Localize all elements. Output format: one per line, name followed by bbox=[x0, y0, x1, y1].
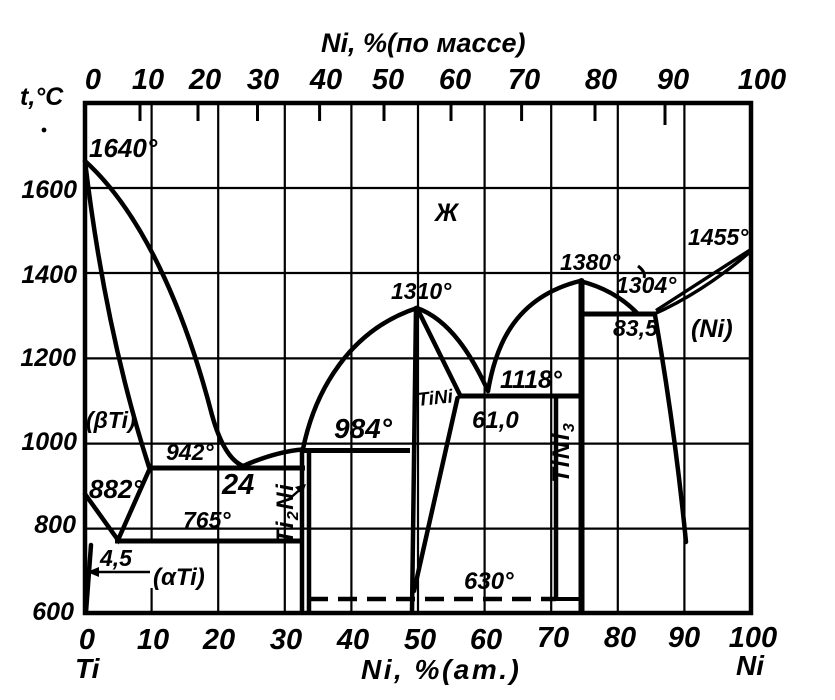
svg-text:800: 800 bbox=[34, 511, 76, 539]
svg-text:984°: 984° bbox=[334, 413, 393, 444]
svg-text:882°: 882° bbox=[89, 474, 143, 504]
top wt% tick marks bbox=[140, 105, 665, 125]
svg-text:100: 100 bbox=[738, 64, 786, 96]
svg-text:0: 0 bbox=[79, 624, 95, 656]
svg-text:40: 40 bbox=[336, 624, 369, 656]
scan speckle dot bbox=[42, 128, 47, 133]
svg-text:20: 20 bbox=[188, 64, 221, 96]
liquidus Ti side bbox=[85, 161, 243, 466]
beta-Ti solidus bbox=[85, 161, 149, 467]
svg-text:60: 60 bbox=[470, 624, 502, 656]
svg-text:1380°: 1380° bbox=[560, 249, 621, 275]
liquidus eutectic to Ti2Ni bbox=[243, 450, 302, 467]
lens liquidus to Ni bbox=[652, 252, 750, 315]
TiNi3 box bottom segment bbox=[553, 597, 583, 601]
svg-text:1310°: 1310° bbox=[391, 278, 452, 304]
thick horizontal invariant lines bbox=[115, 314, 656, 541]
svg-text:24: 24 bbox=[221, 469, 254, 501]
plot frame bbox=[85, 103, 751, 613]
svg-text:80: 80 bbox=[585, 64, 617, 96]
alpha-Ti solvus bbox=[86, 545, 91, 612]
svg-text:1118°: 1118° bbox=[500, 366, 563, 394]
comma mark near 1304 bbox=[638, 266, 644, 278]
942 eutectic line bbox=[148, 466, 305, 471]
svg-text:80: 80 bbox=[604, 622, 636, 654]
liquidus 1118 eutectic to TiNi3 dome bbox=[488, 281, 580, 391]
svg-text:83,5: 83,5 bbox=[613, 315, 659, 341]
svg-text:20: 20 bbox=[202, 624, 235, 656]
882 eutectoid V bbox=[85, 468, 150, 540]
TiNi3 left boundary bbox=[554, 396, 559, 598]
Ti2Ni right vertical bbox=[307, 451, 312, 612]
svg-text:0: 0 bbox=[85, 64, 101, 96]
svg-text:Ж: Ж bbox=[433, 199, 460, 227]
svg-text:1400: 1400 bbox=[21, 261, 77, 289]
svg-text:Ni, %(am.): Ni, %(am.) bbox=[361, 654, 521, 685]
svg-text:70: 70 bbox=[508, 64, 540, 96]
svg-text:30: 30 bbox=[270, 624, 302, 656]
svg-text:942°: 942° bbox=[166, 439, 214, 465]
630 dashed line bbox=[309, 597, 556, 601]
svg-text:10: 10 bbox=[137, 624, 169, 656]
4,5 leader arrow bbox=[87, 567, 150, 577]
svg-text:765°: 765° bbox=[183, 507, 231, 533]
svg-text:90: 90 bbox=[657, 64, 689, 96]
Ni solvus bbox=[655, 315, 686, 542]
svg-text:50: 50 bbox=[372, 64, 404, 96]
svg-text:10: 10 bbox=[132, 64, 164, 96]
svg-text:1000: 1000 bbox=[21, 428, 77, 456]
svg-text:TiNi: TiNi bbox=[416, 386, 454, 411]
grid horizontal lines (800..1600 C) bbox=[85, 188, 751, 529]
left temperature numbers bbox=[20, 176, 77, 626]
svg-text:60: 60 bbox=[439, 64, 471, 96]
svg-text:1640°: 1640° bbox=[89, 133, 158, 163]
svg-text:1304°: 1304° bbox=[616, 272, 677, 298]
lens solidus to Ni bbox=[656, 250, 750, 311]
svg-text:70: 70 bbox=[537, 622, 569, 654]
TiNi right solidus bbox=[417, 308, 460, 395]
svg-text:Ni: Ni bbox=[736, 650, 765, 681]
svg-text:1200: 1200 bbox=[20, 344, 76, 372]
svg-text:Ni, %(по массе): Ni, %(по массе) bbox=[321, 28, 526, 58]
Ti2Ni leader arrow bbox=[288, 484, 306, 500]
TiNi stoichiometric vertical bbox=[412, 308, 416, 612]
1304 eutectic line bbox=[581, 312, 656, 317]
svg-text:90: 90 bbox=[668, 622, 700, 654]
svg-text:(βTi): (βTi) bbox=[86, 407, 136, 433]
top wt% scale numbers bbox=[85, 64, 786, 96]
svg-text:30: 30 bbox=[247, 64, 279, 96]
TiNi dome left liquidus bbox=[303, 308, 417, 449]
svg-text:61,0: 61,0 bbox=[472, 407, 519, 434]
1118 eutectic line bbox=[459, 394, 582, 399]
svg-text:1600: 1600 bbox=[21, 176, 77, 204]
svg-text:4,5: 4,5 bbox=[99, 545, 133, 571]
svg-text:630°: 630° bbox=[464, 568, 514, 595]
svg-text:(αTi): (αTi) bbox=[153, 564, 205, 591]
Ti2Ni left vertical bbox=[300, 451, 305, 612]
grid vertical lines (10..90 at%) bbox=[152, 103, 685, 613]
phase boundary lines bbox=[85, 161, 686, 612]
svg-text:600: 600 bbox=[32, 598, 74, 626]
TiNi dome right liquidus bbox=[417, 308, 488, 391]
TiNi3 dome right liquidus bbox=[580, 281, 637, 313]
svg-text:t,°C: t,°C bbox=[20, 83, 64, 111]
TiNi3 main vertical bbox=[579, 281, 585, 612]
svg-text:40: 40 bbox=[309, 64, 342, 96]
svg-text:1455°: 1455° bbox=[688, 224, 749, 250]
bottom at% scale numbers bbox=[79, 622, 777, 656]
984 peritectic line bbox=[302, 448, 410, 453]
svg-text:50: 50 bbox=[404, 624, 436, 656]
svg-text:Ti: Ti bbox=[75, 653, 101, 684]
svg-text:(Ni): (Ni) bbox=[691, 315, 733, 343]
TiNi right solvus bbox=[414, 398, 458, 591]
765 eutectoid line bbox=[115, 539, 302, 544]
